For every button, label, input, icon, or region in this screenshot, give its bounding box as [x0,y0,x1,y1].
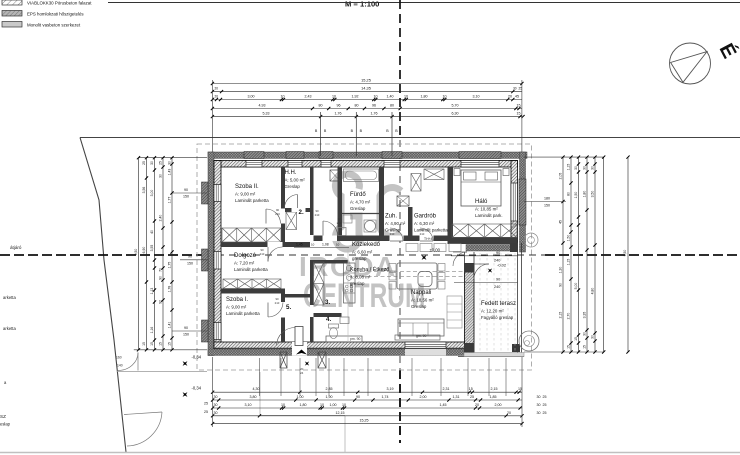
svg-text:1,85: 1,85 [490,395,497,399]
wall Dolgozo / Szoba I [221,289,281,294]
svg-text:25: 25 [204,402,208,406]
svg-text:Greslap: Greslap [411,304,427,309]
outer wall right masonry (Halo) [511,161,518,245]
svg-text:EPS homlokzati hőszigetelés: EPS homlokzati hőszigetelés [27,12,84,17]
roof eaves dashed outline [197,144,532,370]
svg-text:90: 90 [184,326,188,330]
hidden beam dashed [348,271,464,273]
svg-text:15: 15 [566,345,570,349]
svg-text:70: 70 [158,268,162,272]
washer box Zuh [397,196,409,206]
left window dim 90/150 middle [180,259,207,261]
svg-text:1,31: 1,31 [453,395,460,399]
boiler box [330,170,340,181]
north arrow [670,40,740,84]
top dim row 2 (14.35) [212,91,522,93]
svg-text:90: 90 [496,278,500,282]
door gap Furdo [323,236,338,242]
svg-text:Konyha / Étkező: Konyha / Étkező [350,266,389,273]
window Dolgozo left [214,252,221,270]
svg-text:14,35: 14,35 [361,86,371,91]
vanity Furdo [343,215,352,223]
site boundary north line [80,137,740,139]
svg-text:Gardrób: Gardrób [414,214,437,220]
svg-text:4.: 4. [326,316,331,323]
svg-text:Fedett terasz: Fedett terasz [481,301,516,307]
svg-text:80: 80 [566,192,570,196]
svg-text:VIABLOKK30 Pórusbeton falazat: VIABLOKK30 Pórusbeton falazat [27,1,92,6]
wall Szoba II / H.H. [281,167,285,242]
svg-text:10: 10 [336,243,340,247]
svg-text:210: 210 [420,232,425,236]
svg-text:5.: 5. [286,304,291,311]
svg-text:20: 20 [215,86,219,90]
svg-text:3,50: 3,50 [590,191,594,198]
svg-text:A: 9,00 m²: A: 9,00 m² [226,305,247,310]
door gap Gardrob [420,236,434,242]
svg-text:90: 90 [496,251,500,255]
svg-text:Zuh.: Zuh. [385,214,397,220]
svg-text:1,15: 1,15 [566,259,570,266]
entrance door leaf [295,327,303,346]
svg-text:1,76: 1,76 [335,112,342,116]
kitchen counter south [326,336,362,342]
level mark +0.00 [419,253,429,263]
top dim row 1 (15.25) [212,83,522,85]
door gap Szoba II [281,209,285,224]
terrace leader dims [451,255,518,257]
shutter box top 2 [286,152,304,159]
svg-text:3,00: 3,00 [150,190,154,197]
gate 1 arc [118,353,138,371]
bathtub [344,169,379,182]
svg-text:1,80: 1,80 [421,94,428,98]
terrace south edge [458,356,524,358]
svg-text:15,25: 15,25 [360,419,369,423]
svg-text:2,40: 2,40 [158,215,162,222]
vertical axis dash-dot line [399,0,401,140]
window Zuh top [384,161,400,168]
door gap Dolgozo [268,242,283,247]
svg-text:2,15: 2,15 [558,312,562,319]
TV board [395,335,440,340]
svg-text:30: 30 [150,161,154,165]
door Furdo [322,221,324,236]
svg-text:180: 180 [544,196,550,200]
svg-text:Greslap: Greslap [285,184,301,189]
svg-text:3,10: 3,10 [473,94,480,98]
svg-text:30: 30 [590,335,594,339]
svg-text:25: 25 [543,411,547,415]
svg-text:A: 9,00 m²: A: 9,00 m² [235,192,256,197]
svg-text:1,00: 1,00 [330,403,337,407]
wardrobe Gardrob vertical [411,174,421,192]
wall WC top [314,313,342,317]
svg-text:1,80: 1,80 [582,191,586,198]
svg-text:210: 210 [390,232,395,236]
wall vestibule top [285,294,310,298]
svg-text:30: 30 [158,174,162,178]
svg-text:92: 92 [158,300,162,304]
wall H.H. bottom [285,208,310,212]
svg-text:30: 30 [214,411,218,415]
svg-text:átjáró: átjáró [10,245,22,250]
right total 9.50 [627,157,629,352]
legend box masonry [2,0,22,5]
wall Nappali / terrace hatched [465,264,475,353]
svg-text:80: 80 [355,103,359,107]
svg-text:25: 25 [158,161,162,165]
svg-text:9,50: 9,50 [623,250,627,257]
terrace step strip below Halo wall [466,245,517,252]
terrace wall post top [464,264,475,273]
svg-text:gm. 90: gm. 90 [416,334,426,338]
door gap kitchen [310,305,314,317]
bed Halo [461,170,501,206]
svg-text:±0,00: ±0,00 [430,248,441,253]
svg-text:Háló: Háló [475,199,488,205]
svg-text:25: 25 [204,410,208,414]
svg-text:30: 30 [590,166,594,170]
svg-text:M = 1:100: M = 1:100 [345,0,379,8]
right window dim 180/150 [524,201,566,203]
window Szoba II top [246,161,262,168]
svg-text:15: 15 [517,103,521,107]
svg-text:20: 20 [215,94,219,98]
svg-text:Monolit vasbeton szerkezet: Monolit vasbeton szerkezet [27,23,81,28]
svg-text:25: 25 [543,395,547,399]
svg-text:Laminált park.: Laminált park. [475,213,503,218]
svg-text:1,78: 1,78 [167,286,171,293]
svg-text:-0,34: -0,34 [192,355,202,360]
dining chairs left [389,264,396,272]
svg-text:1,92: 1,92 [352,94,359,98]
svg-text:1,77: 1,77 [167,197,171,204]
entry arrow [296,350,307,355]
svg-text:2,43: 2,43 [305,94,312,98]
door gap Zuh [390,236,404,242]
sofa Nappali [398,319,444,336]
window Halo top [461,161,499,168]
middle wall corridor north [314,236,454,242]
svg-text:9,50: 9,50 [134,249,138,256]
wall Furdo / Zuh right [379,167,384,241]
svg-text:30: 30 [582,332,586,336]
level mark -0.02 terrace [486,266,494,274]
window Szoba II left [214,185,221,202]
svg-text:25: 25 [543,403,547,407]
svg-text:3,19: 3,19 [387,387,394,391]
svg-text:2,15: 2,15 [491,387,498,391]
door gap H.H. [292,208,306,212]
svg-text:greslap: greslap [352,256,367,261]
svg-text:210: 210 [275,212,280,216]
svg-text:30: 30 [537,395,541,399]
svg-text:Laminált parketta: Laminált parketta [226,311,260,316]
svg-text:30: 30 [537,411,541,415]
site boundary west diagonal [80,138,126,453]
terrace corner post NE [510,243,518,252]
svg-text:15: 15 [158,342,162,346]
nightstand right [503,169,509,176]
left window dim 90/150 upper [172,192,207,194]
svg-text:10: 10 [342,403,346,407]
svg-text:10: 10 [311,243,315,247]
svg-text:1,30: 1,30 [558,267,562,274]
svg-text:3,00: 3,00 [248,94,255,98]
shutter box top 3 [319,152,333,159]
door Halo [453,251,467,253]
door Dolgozo [267,247,269,262]
walkway gray lines [259,372,261,416]
svg-text:90: 90 [158,276,162,280]
outer wall bottom masonry [214,342,465,348]
svg-text:arketta: arketta [3,295,16,300]
svg-text:A: 4,90 m²: A: 4,90 m² [385,221,406,226]
svg-text:15: 15 [582,345,586,349]
svg-text:Közlekedő: Közlekedő [352,242,381,248]
svg-text:10: 10 [281,403,285,407]
top dim row 4 [212,108,522,110]
svg-text:2,00: 2,00 [495,403,502,407]
svg-text:150: 150 [183,195,189,199]
svg-text:45: 45 [515,94,519,98]
washbasin round Furdo [365,221,376,232]
vestibule closet [286,212,297,230]
top extension lines [211,80,213,152]
door Gardrob [420,240,433,242]
svg-text:4,93: 4,93 [259,103,266,107]
svg-text:eslap: eslap [0,422,11,427]
door Szoba II [265,209,267,224]
wall Dolgozo north [221,242,310,247]
svg-text:20: 20 [475,403,479,407]
entry post right [318,352,326,368]
svg-text:40: 40 [150,230,154,234]
dining chairs right [438,264,445,272]
corridor small dim row [294,247,349,249]
svg-text:20: 20 [507,411,511,415]
EPS strip left [208,152,214,356]
svg-text:10: 10 [320,403,324,407]
wall Gardrob / Halo [448,167,454,244]
svg-text:H.H.: H.H. [285,170,297,176]
svg-text:30: 30 [513,86,517,90]
svg-text:96: 96 [337,103,341,107]
svg-text:30: 30 [167,161,171,165]
sideboard row corridor [406,244,418,252]
svg-text:1,50: 1,50 [566,235,570,242]
wall Szoba I right [281,289,285,343]
bottom dim row 1 [213,391,522,393]
door gap Szoba I [281,302,285,318]
svg-text:A: 5,00 m²: A: 5,00 m² [285,178,306,183]
legend box reinforced concrete [2,22,22,28]
EPS strip right (Halo) [520,152,526,252]
svg-text:1,45: 1,45 [440,403,447,407]
svg-text:15: 15 [150,342,154,346]
svg-text:15,25: 15,25 [361,78,371,83]
svg-text:10: 10 [404,94,408,98]
window Furdo top [321,161,331,168]
svg-text:210: 210 [260,252,265,256]
svg-text:30: 30 [214,395,218,399]
right dim columns [524,156,604,158]
svg-text:1,08: 1,08 [322,243,329,247]
svg-text:80: 80 [390,103,394,107]
svg-text:96: 96 [372,103,376,107]
wardrobe Gardrob top [424,169,444,180]
svg-text:240: 240 [494,285,500,289]
svg-text:30: 30 [574,166,578,170]
svg-text:-0,34: -0,34 [192,386,202,391]
svg-text:1,74: 1,74 [382,395,389,399]
svg-text:2,70: 2,70 [566,313,570,320]
svg-text:A: 8,08 m²: A: 8,08 m² [350,275,371,280]
kitchen-nappali light divider [347,247,349,342]
svg-text:30: 30 [214,403,218,407]
EPS strip top [208,152,527,158]
svg-text:SZ: SZ [0,414,6,419]
svg-text:1,15: 1,15 [566,164,570,171]
svg-text:3,55: 3,55 [150,245,154,252]
svg-text:210: 210 [275,301,280,305]
svg-text:90: 90 [356,395,360,399]
bottom page gray line [0,452,740,454]
svg-text:10: 10 [374,94,378,98]
shutter box left 2 [202,249,209,271]
top dim row 3 [212,99,522,101]
svg-text:2,00: 2,00 [420,395,427,399]
svg-text:TH+4,8: TH+4,8 [424,237,435,241]
svg-text:1,16: 1,16 [150,327,154,334]
svg-text:25: 25 [470,395,474,399]
shutter box left 1 [202,182,209,204]
svg-text:150: 150 [187,261,193,265]
entrance opening [292,342,307,356]
wall kitchen left [310,262,314,305]
svg-text:15: 15 [574,337,578,341]
svg-text:Laminált parketta: Laminált parketta [234,267,268,272]
bottom dim row 5 (15.25) [213,423,522,425]
wall Zuh / Gardrob [408,207,413,241]
svg-text:A: 6,60 m²: A: 6,60 m² [352,250,373,255]
dining table [397,263,437,289]
armchair Nappali [418,272,432,287]
door Zuh [390,240,403,242]
shutter box top 4 [382,152,402,159]
svg-text:15: 15 [517,112,521,116]
svg-text:1,13: 1,13 [150,288,154,295]
svg-text:Fagyálló greslap: Fagyálló greslap [481,315,514,320]
toilet room4 [329,324,339,328]
svg-text:1,76: 1,76 [371,112,378,116]
svg-text:3,10: 3,10 [245,403,252,407]
WC Furdo [338,228,346,236]
terrace corner post SE [512,344,520,352]
svg-text:30: 30 [537,403,541,407]
svg-text:1,50: 1,50 [574,192,578,199]
svg-text:210: 210 [315,213,320,217]
svg-text:5,70: 5,70 [452,103,459,107]
svg-text:160: 160 [116,356,122,360]
svg-text:arketta: arketta [3,326,16,331]
svg-text:Greslap: Greslap [350,206,366,211]
svg-text:2,05: 2,05 [558,173,562,180]
svg-text:10: 10 [281,94,285,98]
gate 2 arc [124,412,162,415]
svg-text:pm. 90: pm. 90 [350,337,360,341]
svg-text:Szoba I.: Szoba I. [226,297,248,303]
wall kitchen top [310,260,348,264]
svg-text:24: 24 [300,371,304,375]
svg-text:A: 4,70 m²: A: 4,70 m² [350,200,371,205]
svg-text:6,90: 6,90 [142,247,146,254]
terrace tiling [479,253,481,351]
top dim row 5 [212,116,522,118]
shutter box left 3 [202,320,209,342]
svg-text:15: 15 [167,342,171,346]
level mark -0.34 lower [180,390,190,400]
svg-text:A: 12,20 m²: A: 12,20 m² [481,309,504,314]
door Szoba I [267,303,269,318]
door terrace from Nappali [474,263,489,265]
wall Furdo left [338,167,343,241]
svg-text:4,30: 4,30 [253,387,260,391]
svg-text:6,30: 6,30 [452,112,459,116]
outer wall top masonry [214,161,518,168]
entry level star [303,359,311,367]
pantry cabinet [314,262,325,305]
horizontal axis dash-dot line [0,254,205,256]
svg-text:25: 25 [142,161,146,165]
svg-text:Laminált parketta: Laminált parketta [235,198,269,203]
bottom dim row 4 [213,415,522,417]
bottom dim row 2 [213,399,522,401]
svg-text:A: 18,56 m²: A: 18,56 m² [411,298,434,303]
left dim columns [139,157,208,159]
svg-text:A: 6,30 m²: A: 6,30 m² [414,221,435,226]
terrace furniture circle NE [524,233,538,247]
svg-text:1,45: 1,45 [296,243,303,247]
svg-text:90: 90 [184,188,188,192]
svg-text:1,80: 1,80 [300,403,307,407]
kitchen counter [344,263,356,303]
svg-text:A: 7,20 m²: A: 7,20 m² [234,261,255,266]
svg-text:150: 150 [544,203,550,207]
shutter box top 1 [244,152,264,159]
svg-text:1,75: 1,75 [167,262,171,269]
window Halo right [511,183,518,221]
svg-text:90: 90 [188,255,192,259]
svg-text:80: 80 [319,103,323,107]
svg-text:2,31: 2,31 [443,387,450,391]
svg-text:20: 20 [508,94,512,98]
svg-text:5,00: 5,00 [574,283,578,290]
wardrobe Dolgozo south [223,279,281,289]
nightstand left [454,169,460,176]
svg-text:1,43: 1,43 [167,169,171,176]
svg-text:210: 210 [337,221,342,225]
wardrobe Halo south [452,224,517,238]
wall H.H. right [310,167,314,235]
svg-text:90: 90 [558,283,562,287]
wall Halo south [448,237,518,244]
svg-text:Dolgozó: Dolgozó [234,253,257,259]
terrace furniture circle SE [519,331,539,351]
svg-text:-0,02: -0,02 [497,263,507,268]
shelf along terrace wall [447,296,462,328]
